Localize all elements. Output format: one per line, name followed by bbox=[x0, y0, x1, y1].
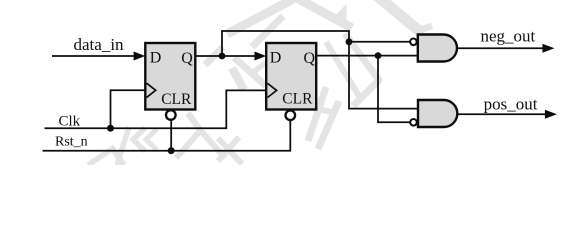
svg-text:data_in: data_in bbox=[74, 35, 125, 54]
svg-text:CLR: CLR bbox=[282, 90, 313, 107]
svg-text:D: D bbox=[270, 49, 282, 66]
svg-text:Q: Q bbox=[304, 50, 316, 67]
svg-text:D: D bbox=[150, 49, 162, 66]
svg-text:neg_out: neg_out bbox=[481, 26, 536, 45]
svg-text:CLR: CLR bbox=[161, 91, 192, 108]
svg-text:Clk: Clk bbox=[59, 113, 81, 129]
svg-text:Q: Q bbox=[181, 50, 193, 67]
svg-text:Rst_n: Rst_n bbox=[55, 134, 88, 149]
svg-text:pos_out: pos_out bbox=[484, 95, 538, 114]
